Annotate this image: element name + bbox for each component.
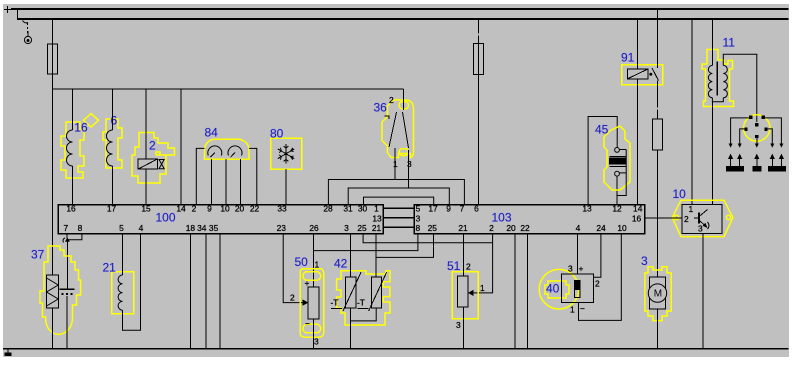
svg-text:24: 24 — [596, 223, 606, 233]
wire coil 6 to pin 17 — [112, 166, 114, 205]
component 45 (knock sensor) — [604, 126, 630, 190]
svg-text:2: 2 — [149, 139, 156, 153]
battery plus — [4, 6, 11, 13]
coil of 16 — [67, 130, 73, 166]
svg-text:40: 40 — [546, 282, 560, 296]
wire bus1 through relay contact to fuse F3 — [657, 9, 659, 68]
svg-text:103: 103 — [492, 211, 512, 225]
suppression resistor of 37 — [47, 275, 59, 308]
fuse F3 — [653, 119, 663, 150]
coil 21 — [118, 275, 122, 310]
wire resistor to earth — [52, 308, 54, 348]
wire pin 35 to earth — [219, 234, 221, 349]
svg-text:8: 8 — [78, 223, 83, 233]
svg-text:1: 1 — [570, 305, 575, 315]
fuse F2 — [474, 44, 484, 75]
svg-text:M: M — [654, 289, 662, 300]
svg-text:4: 4 — [139, 223, 144, 233]
wire 36 pin 3 to bracket — [408, 150, 410, 188]
spark plug 5 — [777, 155, 785, 171]
bus line 15 (ignition) — [17, 18, 789, 20]
svg-text:16: 16 — [74, 121, 88, 135]
wire node89 to coil 6 — [112, 89, 114, 130]
wire pin 3 to thermistor 1 — [350, 234, 352, 278]
svg-text:16: 16 — [632, 213, 642, 223]
svg-text:1: 1 — [393, 159, 398, 169]
bracket pin31 - pin9 — [348, 188, 449, 205]
wire node89 to pin 14 — [180, 89, 182, 205]
svg-text:2: 2 — [595, 279, 600, 289]
wire coil 21 to pin 4 — [123, 234, 141, 331]
svg-text:22: 22 — [520, 223, 530, 233]
pin labels box 100 top — [66, 204, 382, 234]
spark plug 2 — [736, 155, 744, 171]
ignition coil 11 — [702, 50, 733, 107]
svg-text:36: 36 — [374, 100, 388, 114]
bracket pin28 - pin7 — [328, 180, 464, 205]
svg-text:3: 3 — [314, 337, 319, 347]
pin labels box 100 bottom — [63, 223, 349, 233]
svg-text:3: 3 — [407, 159, 412, 169]
svg-text:2: 2 — [290, 293, 295, 303]
wire pin 18 to earth — [189, 234, 191, 349]
component 40 (diagnostic connector) — [539, 269, 579, 309]
component 2 (timer relay) — [132, 133, 175, 184]
svg-text:11: 11 — [723, 36, 736, 50]
wire relay 2 to pin 15 — [145, 169, 147, 204]
svg-text:3: 3 — [641, 254, 648, 268]
wire pin 4 of 103 to connector 40 — [576, 234, 578, 274]
svg-text:1: 1 — [689, 204, 694, 214]
svg-text:18: 18 — [186, 223, 196, 233]
relay 91 — [622, 65, 663, 85]
wire 36 pin 1 to bracket — [394, 148, 396, 180]
ECU box 103 — [414, 205, 645, 234]
wire coil 16 to pin 16 — [72, 166, 74, 205]
svg-text:26: 26 — [309, 223, 319, 233]
component 84 (instrument cluster gauges) — [205, 139, 250, 159]
component 50 (lambda sensor) — [300, 269, 324, 338]
wire pin 34 to earth — [205, 234, 207, 349]
svg-text:+: + — [579, 264, 584, 274]
svg-text:-T: -T — [331, 298, 339, 308]
svg-text:2: 2 — [684, 214, 689, 224]
component 6 (coil load) — [103, 119, 122, 168]
wire pin 21 to thermistor 2 — [375, 234, 377, 278]
svg-text:3: 3 — [416, 213, 421, 223]
svg-text:−: − — [305, 319, 310, 329]
transistor in module 10 — [694, 217, 699, 219]
svg-text:45: 45 — [595, 122, 609, 136]
bus B+ line 30 — [11, 8, 789, 10]
svg-text:8: 8 — [415, 223, 420, 233]
svg-text:10: 10 — [673, 187, 687, 201]
wire bus2 to module 10 pin 1 — [691, 19, 693, 205]
coil 11 core — [716, 61, 718, 95]
spark plug 1 — [727, 155, 735, 171]
svg-text:91: 91 — [621, 51, 635, 65]
wire 84 pin 22 — [249, 148, 257, 204]
gauge right — [228, 146, 242, 156]
wire node89 to relay 2 — [145, 89, 147, 159]
distributor — [744, 115, 770, 141]
distributor output wires — [731, 118, 751, 144]
svg-text:34: 34 — [197, 223, 207, 233]
component 16 (relay/load with coil) — [61, 114, 99, 178]
svg-text:23: 23 — [277, 223, 287, 233]
relay 91 contact — [650, 73, 652, 75]
svg-text:2: 2 — [389, 95, 394, 105]
wire coil 11 to module 10 — [711, 102, 713, 205]
svg-text:7: 7 — [63, 223, 68, 233]
wire connector 40 pin 2 to pin 24 of 103 — [594, 234, 601, 278]
svg-text:-T: -T — [357, 298, 365, 308]
wire fuse to node 89 and down to component 37 — [52, 74, 54, 275]
wire box 103 pin 16 to module 10 pin 2 — [645, 217, 683, 219]
svg-text:3: 3 — [344, 223, 349, 233]
wire pin 5 to coil 21 — [122, 234, 124, 276]
svg-text:84: 84 — [205, 126, 219, 140]
svg-text:50: 50 — [295, 255, 309, 269]
svg-text:21: 21 — [458, 223, 468, 233]
wire bus2 to fuse F2 — [478, 19, 480, 34]
spark gap of 37 — [59, 288, 74, 290]
wire thermistor 2 to thermistor 1 leg — [351, 308, 377, 321]
svg-text:2: 2 — [466, 262, 471, 272]
svg-text:21: 21 — [103, 261, 117, 275]
svg-text:10: 10 — [617, 223, 627, 233]
ground symbol — [7, 349, 9, 353]
coil 11 secondary winding — [723, 65, 727, 97]
wire coil 11 HT to distributor — [723, 54, 757, 122]
thermistor 2 — [371, 277, 381, 308]
bracket pin30 - pin17 — [364, 197, 434, 204]
svg-text:5: 5 — [119, 223, 124, 233]
svg-text:3: 3 — [568, 264, 573, 274]
coil 11 primary winding — [708, 65, 712, 97]
wire 84 pin 9 — [210, 159, 212, 204]
wire node to pin 8 of 103 — [313, 234, 418, 251]
feed line y=89 — [53, 88, 404, 90]
wire 84 pin 2 — [196, 148, 204, 204]
component 51 (throttle potentiometer) — [452, 272, 478, 319]
wire pin 22 of 103 to earth — [527, 234, 529, 349]
wire bus1 to bus2 — [17, 9, 19, 19]
ECU box 100 — [58, 205, 383, 234]
potentiometer resistor — [458, 276, 469, 307]
wire pin 25 of 100 to throttle node — [363, 234, 493, 243]
boxes — [58, 205, 645, 234]
ignition module 10 — [672, 200, 733, 236]
spark plug 3 — [753, 155, 761, 171]
svg-text:4: 4 — [576, 223, 581, 233]
wire from bus2 down left — [48, 19, 404, 275]
wire module 10 pin 3 to earth — [702, 234, 704, 349]
svg-text:42: 42 — [334, 256, 348, 270]
wire node89 to coil 16 — [72, 89, 74, 130]
wire fuse F3 down to motor 3 — [657, 150, 659, 277]
svg-text:2: 2 — [489, 223, 494, 233]
svg-text:1: 1 — [480, 283, 485, 293]
wire potentiometer to earth — [462, 307, 464, 348]
svg-text:3: 3 — [698, 224, 703, 234]
wire connector 40 pin 1 to pin 10 of 103 — [579, 234, 622, 321]
wire pin 26 to sensor 50 — [312, 234, 314, 287]
wire node 21L to pin 25 of 103 — [376, 234, 433, 258]
motor 3 (fuel pump) — [645, 267, 671, 321]
spark plug 4 — [768, 155, 776, 171]
wire 84 pin 20 — [239, 159, 241, 204]
wire thermistor 1 to earth — [350, 308, 352, 348]
wire pin 2 of 103 to potentiometer wiper — [473, 234, 493, 293]
wire 84 pin 10 — [225, 159, 227, 204]
svg-text:1: 1 — [315, 260, 320, 270]
gauge left — [208, 146, 222, 156]
fuse F1 — [48, 44, 58, 74]
svg-text:6: 6 — [111, 114, 118, 128]
wire pin 23 to sensor 50 heater — [283, 234, 307, 306]
wire bus2 to relay 91 coil and down to pin 14 of 103 — [636, 19, 638, 69]
wire pin 21 of 103 to potentiometer — [462, 234, 464, 277]
component 37 (spark plug w/ suppressor) — [40, 246, 81, 334]
coil 11 bottom link — [712, 98, 723, 102]
wire bus2 to coil 11 primary — [711, 19, 713, 65]
component 36 (brake pedal double switch) — [382, 100, 414, 158]
svg-text:20: 20 — [506, 223, 516, 233]
wire pin 7 stub with arrow — [63, 234, 82, 289]
svg-text:13: 13 — [372, 213, 382, 223]
middle connector bars — [383, 208, 414, 227]
wire motor to earth — [657, 309, 659, 348]
pin labels box 103 — [415, 204, 642, 234]
svg-text:25: 25 — [357, 223, 367, 233]
component 21 (sensor coil) — [112, 272, 134, 314]
wire pin 8 to pin 7 node — [68, 234, 82, 240]
svg-text:35: 35 — [209, 223, 219, 233]
component 80 (A/C snowflake switch) — [271, 138, 302, 169]
svg-text:37: 37 — [31, 248, 45, 262]
connector 40 body — [562, 274, 594, 303]
coil of 6 — [107, 130, 113, 166]
relay 2 coil box — [138, 159, 157, 169]
enclosure of 45 (wires pins 13/12) — [588, 117, 617, 205]
wire pin 20 of 103 to earth — [514, 234, 516, 349]
svg-text:51: 51 — [447, 259, 461, 273]
wire node89 into switch 36 pin 2 — [403, 89, 405, 110]
relay 2 timer symbol — [159, 160, 164, 169]
svg-text:3: 3 — [456, 320, 461, 330]
ground bus — [3, 349, 789, 353]
thermistor 1 — [346, 277, 356, 308]
svg-text:80: 80 — [270, 127, 284, 141]
svg-text:−: − — [580, 304, 585, 314]
svg-text:25: 25 — [428, 223, 438, 233]
wire 80 to pin 33 — [285, 169, 287, 205]
svg-text:100: 100 — [156, 211, 176, 225]
wire junction down to suppressor — [66, 240, 68, 289]
component 42 (temperature sensors) — [337, 271, 390, 325]
svg-text:21: 21 — [372, 223, 382, 233]
switch 36 contact right — [403, 112, 409, 148]
ignition key symbol — [23, 21, 32, 44]
switch 36 contact left — [385, 116, 390, 119]
